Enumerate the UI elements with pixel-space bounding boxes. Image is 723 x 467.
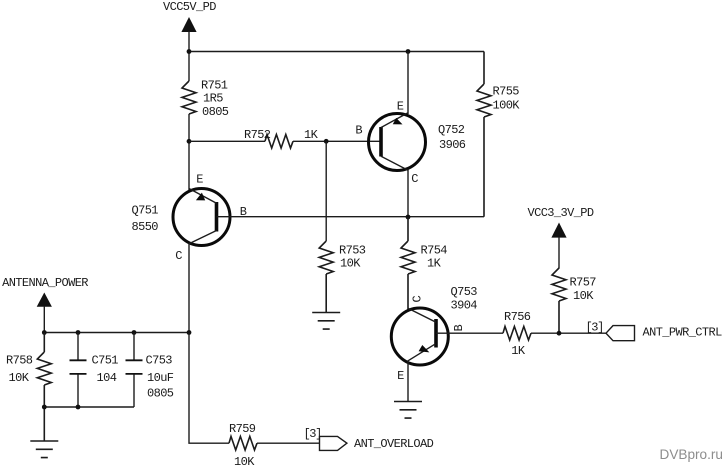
wire: antenna rail y=332.5 [44, 332, 189, 334]
resistor R759 10K [229, 422, 257, 467]
svg-text:ANTENNA_POWER: ANTENNA_POWER [2, 276, 88, 290]
svg-text:8550: 8550 [132, 220, 159, 234]
power symbol VCC3_3V_PD [528, 206, 594, 269]
svg-text:100K: 100K [493, 99, 521, 113]
svg-text:E: E [397, 369, 404, 383]
svg-text:R751: R751 [201, 78, 228, 92]
svg-text:C751: C751 [92, 354, 119, 368]
svg-text:10K: 10K [340, 257, 361, 271]
power symbol VCC5V_PD [163, 0, 216, 81]
svg-text:E: E [196, 173, 203, 187]
resistor R753 10K [319, 241, 366, 313]
svg-text:R754: R754 [421, 244, 448, 258]
wire: Q753 base to R756 [436, 332, 503, 334]
transistor Q751 8550 (PNP) [132, 173, 247, 333]
svg-text:VCC5V_PD: VCC5V_PD [163, 0, 216, 14]
svg-text:B: B [355, 123, 362, 137]
svg-text:R756: R756 [504, 310, 531, 324]
node junction at (189,332.5) [187, 330, 192, 335]
resistor R756 1K [503, 310, 531, 358]
node junction at (326,141.3) R753 branch [324, 139, 329, 144]
svg-text:10K: 10K [9, 371, 30, 385]
resistor R754 1K [401, 217, 447, 310]
svg-text:0805: 0805 [147, 387, 174, 401]
resistor R757 10K [552, 268, 596, 333]
wire: node down to R753 [325, 141, 327, 241]
node junction at (44.3,332.5) [42, 330, 47, 335]
svg-text:Q752: Q752 [438, 123, 465, 137]
node junction at (408,51.5) Q752 emitter [406, 49, 411, 54]
ground under R758 [30, 441, 58, 458]
ground under Q753 emitter [394, 402, 422, 419]
port ANT_OVERLOAD [304, 427, 434, 451]
svg-text:ANT_PWR_CTRL: ANT_PWR_CTRL [643, 326, 723, 340]
svg-text:Q753: Q753 [451, 285, 478, 299]
power symbol ANTENNA_POWER [2, 276, 88, 333]
wire: main line down to R759 row [189, 333, 229, 444]
node junction at (78,332.5) [76, 330, 81, 335]
wire: base feed from node to R752 [189, 140, 265, 142]
svg-text:1K: 1K [511, 344, 526, 358]
svg-text:0805: 0805 [202, 105, 229, 119]
transistor Q752 3906 (PNP) [355, 52, 465, 218]
svg-text:10K: 10K [573, 289, 594, 303]
svg-text:ANT_OVERLOAD: ANT_OVERLOAD [354, 437, 434, 451]
svg-text:E: E [397, 100, 404, 114]
node junction at (189,51.5) [187, 49, 192, 54]
resistor R755 100K [477, 52, 520, 217]
svg-text:R752: R752 [244, 128, 271, 142]
svg-text:1K: 1K [427, 257, 442, 271]
svg-text:3906: 3906 [439, 138, 466, 152]
ground under R753 [312, 313, 340, 330]
svg-text:10K: 10K [234, 455, 255, 467]
wire: bottom rail y=407 [44, 406, 134, 408]
svg-text:[3]: [3] [304, 427, 321, 441]
node junction at (134,332.5) [132, 330, 137, 335]
svg-text:C: C [411, 172, 418, 186]
svg-text:DVBpro.ru: DVBpro.ru [660, 447, 723, 462]
svg-text:Q751: Q751 [132, 204, 159, 218]
svg-text:10uF: 10uF [147, 371, 174, 385]
svg-text:104: 104 [97, 371, 117, 385]
svg-text:VCC3_3V_PD: VCC3_3V_PD [528, 206, 594, 220]
node junction at (559,333.2) [557, 331, 562, 336]
svg-text:R759: R759 [229, 422, 256, 436]
svg-text:1R5: 1R5 [203, 92, 223, 106]
svg-text:R753: R753 [339, 244, 366, 258]
node junction at (408,217) [406, 215, 411, 220]
node junction at (189,141.3) base feed [187, 139, 192, 144]
wire: Q751 base rail y=216.7 to R755 branch [217, 216, 485, 218]
wire: R752 to Q752 base [293, 140, 381, 142]
resistor R758 10K [6, 333, 51, 442]
svg-text:[3]: [3] [586, 321, 603, 335]
capacitor C751 104 [70, 333, 119, 408]
svg-text:R755: R755 [493, 85, 520, 99]
wire: R756 to port [531, 332, 606, 334]
node junction at (44.3,407) [42, 405, 47, 410]
resistor R752 1K [244, 128, 319, 148]
svg-text:C: C [175, 249, 182, 263]
svg-text:1K: 1K [304, 128, 319, 142]
svg-text:B: B [452, 324, 466, 331]
node junction at (78,407) [76, 405, 81, 410]
wire: R751 bottom to Q751 emitter [188, 114, 190, 191]
resistor R751 1R5 0805 [182, 78, 229, 118]
capacitor C753 10uF 0805 [126, 333, 174, 408]
svg-text:3904: 3904 [451, 299, 478, 313]
svg-text:C: C [411, 295, 425, 302]
port ANT_PWR_CTRL [586, 321, 723, 341]
transistor Q753 3904 (NPN) [391, 285, 477, 401]
svg-text:R757: R757 [570, 275, 597, 289]
svg-text:R758: R758 [6, 354, 33, 368]
wire: top rail y=51.5 from main line to R755 branch [189, 51, 484, 53]
wire: R759 to port [257, 442, 320, 444]
svg-text:C753: C753 [146, 354, 173, 368]
